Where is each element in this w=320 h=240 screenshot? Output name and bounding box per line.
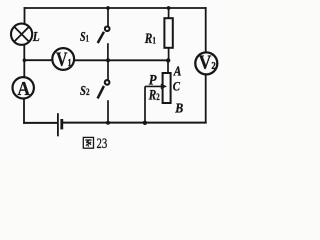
paper background xyxy=(0,0,223,159)
wire bottom rail left of battery xyxy=(24,122,56,124)
wire left vertical ammeter to bottom rail xyxy=(23,98,25,123)
voltmeter V2 xyxy=(195,52,217,75)
svg-text:23: 23 xyxy=(97,135,108,152)
junction node middle R2-A xyxy=(166,58,170,62)
wire middle rail right of V1 xyxy=(74,59,168,61)
resistor R1 xyxy=(164,8,172,60)
svg-text:A: A xyxy=(17,78,30,100)
ammeter A xyxy=(13,77,34,100)
wire right vertical above V2 xyxy=(205,8,207,52)
battery cell xyxy=(58,113,62,136)
svg-text:L: L xyxy=(32,29,40,44)
junction node top S1 xyxy=(106,6,110,10)
wire right vertical below V2 xyxy=(205,75,207,123)
wire middle rail left of V1 xyxy=(24,59,52,61)
switch S1 xyxy=(98,8,110,60)
lamp L xyxy=(11,24,32,45)
rheostat R2 xyxy=(163,60,171,103)
svg-text:B: B xyxy=(174,102,183,117)
wire node to rheostat top (terminal A) xyxy=(167,60,169,73)
wire bottom rail right of battery xyxy=(63,122,206,124)
junction node bottom P xyxy=(143,121,147,125)
junction node left middle xyxy=(23,58,27,62)
svg-text:P: P xyxy=(149,73,158,89)
wiper P wire xyxy=(145,86,162,122)
junction node middle S2 xyxy=(106,58,110,62)
junction node bottom S2 xyxy=(106,121,110,125)
caption 图 (drawn glyph) xyxy=(83,137,93,148)
svg-text:C: C xyxy=(173,79,180,94)
wire left vertical top (corner to lamp) xyxy=(24,8,26,24)
wire left vertical lamp to ammeter xyxy=(23,45,25,78)
switch S2 xyxy=(98,60,110,123)
voltmeter V1 xyxy=(52,48,74,71)
svg-text:A: A xyxy=(173,63,181,78)
wire top rail xyxy=(25,7,206,9)
wiper arrow head xyxy=(161,84,167,90)
junction node top R1 xyxy=(167,6,171,10)
